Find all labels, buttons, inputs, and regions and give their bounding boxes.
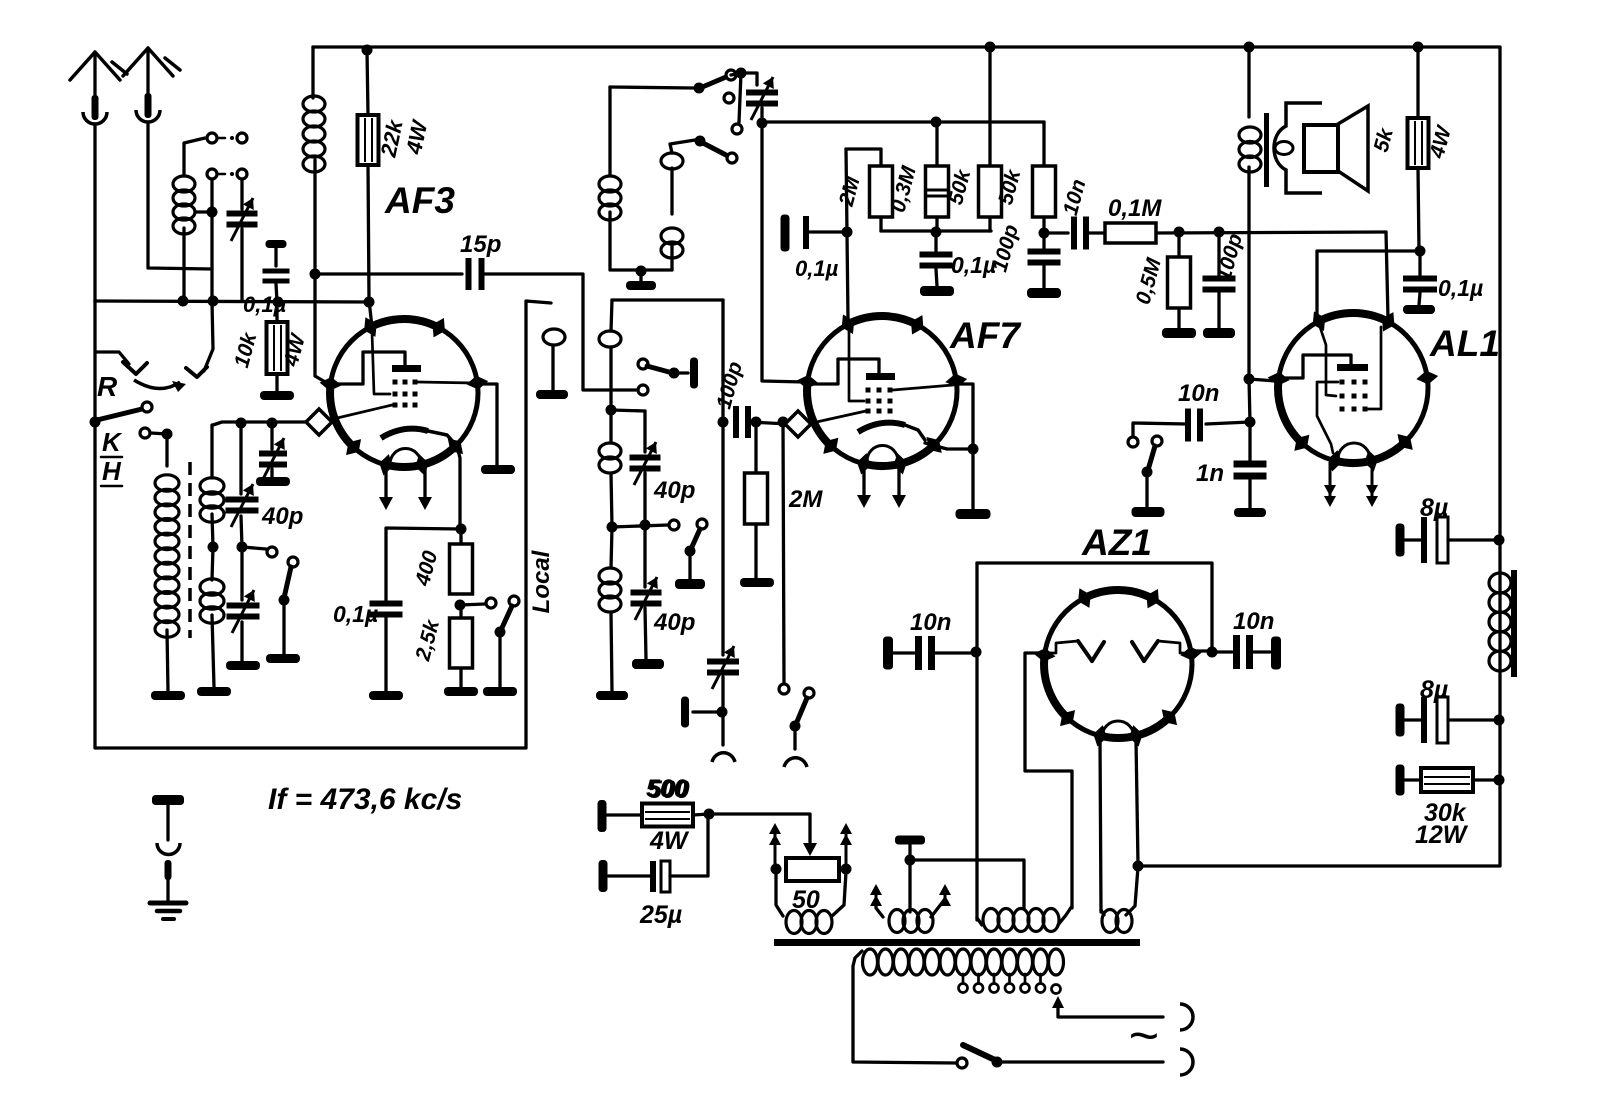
node coil tap [207,207,218,218]
ground gnd-ifsw [675,579,705,589]
jack osc hook [712,753,735,762]
node rail-30k [1494,775,1505,786]
tube V1 cathode [381,429,456,445]
ground gnd-2k5 [444,687,478,696]
node 2M-tap [751,417,762,428]
tube V1 heater [390,448,421,464]
label 4W 500 [649,827,690,855]
label 10n az r [1233,608,1274,635]
node 500-25u [704,809,715,820]
label 10n det [1059,177,1091,218]
wire 100p to diamond [750,422,788,424]
label 0,5M [1132,255,1166,307]
node 400-2k5 [455,600,466,611]
label 2M grid [835,174,865,210]
contact tone1 [1128,437,1138,447]
speaker LS [1274,103,1368,193]
label 0,1u tone [1438,275,1483,301]
wire V4 anode feed [1190,649,1212,652]
inductor PT-5V [1101,867,1138,933]
svg-text:AF7: AF7 [949,315,1022,356]
label 8u 2 [1420,676,1448,704]
label 40p a [261,503,303,530]
wire V4 heater a [1100,740,1101,912]
node avc-03M [931,227,942,238]
svg-text:15p: 15p [460,231,501,258]
ground gnd-V1-screen [481,465,515,474]
resistor R-22k [358,50,379,327]
inductor L-ant [173,138,205,301]
capacitor C-osc-trim [746,77,778,123]
inductor L-IF2-a [599,300,621,410]
wire phono down [783,422,784,683]
label 12W [1415,821,1469,849]
switch wave-sw1 arm [279,557,299,654]
wire V2 cathode gnd [925,384,973,449]
capacitor C-40p-b [227,547,260,661]
capacitor C-8u-1 [1396,517,1500,563]
svg-text:40p: 40p [653,609,695,636]
ground gnd-avc [920,286,954,296]
tube V4 heater [1102,721,1134,737]
switch phono arm [790,688,815,749]
svg-text:0,1µ: 0,1µ [333,601,378,627]
wire V1 cathode down [457,446,460,529]
contact ant-c [207,169,217,179]
node ant-01u [273,297,284,308]
label Local [528,549,555,613]
wire anode to AF3 pin [315,274,327,383]
taps mains [959,974,1046,993]
node PT-5V out [1133,861,1144,872]
tube V2 cathode [858,423,925,440]
wire mains out [997,1060,1163,1063]
terminal bar-pad [681,697,689,728]
tube V1 anode [332,352,421,384]
tube V1 g4 lead [333,405,392,419]
node speaker-anode [1244,374,1255,385]
ground gnd-L1 [151,691,185,700]
terminal bar-15p-sw [690,358,698,389]
node anode-15p [310,269,321,280]
node tone [1415,246,1426,257]
label 100p af [1212,231,1247,283]
tube V2 heater arrows [857,465,906,508]
label 50k 1 [944,166,976,207]
node bus-50k [985,42,996,53]
wire avc bottom [881,229,991,232]
wire grid line [213,422,305,425]
resistor R-400 [450,529,473,594]
label mains tilde [1128,1007,1158,1065]
label AF7 [949,315,1022,356]
label 4W [401,117,433,158]
contact wave-sw1 [267,547,277,557]
switch K arm [97,409,142,420]
ground gnd-100p-det [1027,288,1061,298]
ground gnd-cath-cap [369,691,403,700]
tube V1 grid lead [372,332,390,394]
wire to AL1 anode pin [1249,379,1276,381]
capacitor C-01u-af7 [781,215,846,252]
wire shield box [95,301,551,748]
svg-text:If = 473,6 kc/s: If = 473,6 kc/s [268,783,462,816]
wire PT-CT [908,845,911,860]
node 50-left [771,864,782,875]
grid-cap V2 [785,411,811,437]
svg-text:8µ: 8µ [1420,494,1448,522]
resistor R-500 [598,800,710,832]
arrow 4V left [870,884,882,906]
wire V1 screen gnd [478,384,497,465]
capacitor C-40p-a [226,423,259,547]
wire contact stub [739,73,741,122]
wire CT to HVCT [910,860,1024,908]
svg-text:12W: 12W [1415,821,1469,849]
wire osc to AF7 anode [762,123,804,382]
jack mains hook1 [1180,1004,1193,1030]
jack mains hook2 [1180,1049,1193,1075]
inductor L-IF1-primary [303,47,325,274]
tube V2 grids [866,388,893,414]
svg-text:8µ: 8µ [1420,676,1448,704]
core transformer dashed [188,462,192,638]
wire down to 10n [1249,379,1250,422]
core out-transformer [1264,113,1269,187]
contact osc-c3 [724,93,734,103]
wire coil tap [195,210,212,213]
wire 15p to switch [484,274,636,390]
wire x723 [721,300,724,655]
svg-text:1n: 1n [1196,460,1224,487]
wire pad bar [693,710,722,713]
node az1-right-cap [1207,647,1218,658]
svg-text:0,1µ: 0,1µ [1438,275,1483,301]
tube V3 anode [1285,355,1368,378]
node ant bus b [208,296,219,307]
label AF3 [384,180,455,221]
label AL1 [1429,323,1500,364]
svg-text:H: H [102,456,122,486]
node vol1 [1174,227,1185,238]
switch ifsw arm [685,519,708,579]
antenna A1 [70,52,127,124]
label 50 [792,886,820,914]
ground gnd-V2 [956,509,991,519]
wire anode AL1 [1317,251,1420,318]
label 15p [460,231,501,258]
ground gnd-pad [256,477,290,486]
wire tap1 right [611,410,645,411]
ground gnd-osc [626,271,656,290]
svg-text:AZ1: AZ1 [1081,522,1152,563]
ground gnd-cath-sw [483,687,517,696]
ground gnd-05M [1162,328,1196,338]
tube V3 AL1 envelope [1268,311,1439,471]
wire antenna2 down [148,122,212,269]
node screen-03M [931,117,942,128]
inductor L-osc-b [661,140,695,270]
contact K1 [142,402,152,412]
label 1n [1196,460,1224,487]
inductor L-choke [1489,570,1517,677]
wire tap to contact [242,547,266,549]
ground gnd-link [536,390,568,399]
node ant bus a [178,296,189,307]
node bus-speaker [1244,42,1255,53]
label H [101,456,122,486]
node sec tap a [208,542,219,553]
switch R wiper [96,352,186,392]
inductor L2-sec-top [200,425,224,547]
label 8u 1 [1420,494,1448,522]
label 25u [639,901,682,929]
resistor R-5k [1408,47,1429,251]
wire 15p left [315,272,462,275]
ground gnd-L2 [197,687,231,696]
svg-text:AL1: AL1 [1429,323,1500,364]
node 10n-1n [1245,417,1256,428]
capacitor C-cath-01u [370,528,462,691]
capacitor C-40p-d [631,525,662,659]
wire osc top [610,87,694,88]
switch 15p-gnd arm [638,359,688,379]
node 100p-left [718,417,729,428]
wire HT+ top bus [313,47,1500,866]
label 0,3M [887,163,921,215]
wire to contact [460,604,485,605]
wire K2 to coil [151,433,167,466]
ground gnd-tone-sw [1132,507,1165,517]
tube V3 g2 lead [1368,327,1381,409]
tube V3 grid lead [1319,324,1336,396]
capacitor C-10n-az-l [883,636,976,670]
capacitor C-ant-01u [263,240,290,301]
label 0,1u af7 [795,256,839,281]
resistor R-50k-2 [1033,122,1056,233]
resistor R-50k-1 [979,47,1002,231]
label 30k [1424,799,1467,827]
wire V4 heater b [1136,740,1138,864]
svg-text:R: R [97,371,118,402]
capacitor C-grid-pad [259,423,287,481]
switch osc-sw2 [695,136,727,156]
node bus-22k [362,45,373,56]
node bus-5k [1413,42,1424,53]
earth terminal [150,795,186,919]
label 0,1u ant [243,292,287,317]
wire x977 [975,563,978,920]
capacitor C-1n [1234,422,1267,508]
node osc-af7 [757,118,768,129]
node az1-left-cap [971,647,982,658]
label 4W 5k [1425,122,1456,161]
inductor L-out-prim [1239,47,1261,379]
node IF2 tap2 [607,522,618,533]
label K [101,427,123,457]
label 5k [1370,125,1399,155]
wire AZ1 box [977,563,1212,652]
label 10n az l [910,609,951,636]
contact mains-sw [957,1058,967,1068]
capacitor C-8u-2 [1396,697,1500,743]
node sec tap b [237,542,248,553]
node 40p-c [640,520,651,531]
antenna A2 [123,48,180,122]
svg-text:AF3: AF3 [384,180,455,221]
contact phono1 [779,684,789,694]
tube V3 g3 lead [1317,382,1338,453]
svg-text:25µ: 25µ [639,901,682,929]
node 50-right [841,864,852,875]
wire tap2 to contact [612,525,668,527]
capacitor C-100p-det [1028,233,1061,288]
resistor R-01M [1105,223,1386,243]
tube V4 diode left [1047,641,1104,661]
tube V1 heater arrows [379,467,432,510]
contact ifsw [669,520,679,530]
ground gnd-100p-af [1203,328,1235,338]
arrow 4V right [939,884,951,906]
label 100p osc [712,359,747,411]
tube V1 AF3 envelope [320,317,489,475]
grid-cap V1 [306,409,332,435]
inductor L-IF2-c [599,527,621,691]
arrow 50 right [840,823,852,867]
capacitor C-01u-avc [920,232,953,286]
tube V2 AF7 envelope [797,314,968,474]
inductor L1-primary [155,475,179,691]
node rail-8u1 [1494,535,1505,546]
svg-text:Local: Local [528,549,555,613]
tube V2 grid lead [849,324,864,401]
arrow 50 left [769,823,781,867]
svg-text:2M: 2M [788,486,823,513]
wire screen line [762,120,1044,123]
contact K2 [140,428,150,438]
wire PT-4V-CT [908,860,911,912]
label 100p det [988,222,1023,274]
ground gnd-sw1 [266,654,300,663]
label 400 [411,548,443,589]
node rail-8u2 [1494,715,1505,726]
tube V2 anode [809,359,895,384]
resistor R-10k [267,302,288,391]
node grid-trim [236,418,247,429]
node V1 cathode [456,524,467,535]
node K2 [162,429,173,440]
tube V3 grids [1340,380,1368,412]
wire trim top [731,73,757,85]
svg-text:50: 50 [792,886,820,914]
resistor R-2k5 [450,605,473,687]
node K pivot [90,417,101,428]
capacitor C-10n-tone [1133,409,1250,442]
tube V3 heater arrows [1324,462,1378,507]
label R [97,371,118,402]
ground gnd-IF2 [596,691,628,700]
switch cath-sw arm [495,596,520,687]
resistor R-30k [1396,765,1500,796]
wire feed 50 [709,814,817,856]
label 40p d [653,609,695,636]
inductor L2-sec-bot [200,547,224,687]
node phono-tap [778,417,789,428]
jack phono hook b [784,758,807,767]
tube V4 AZ1 envelope [1034,588,1203,746]
wire IF2 top [612,298,723,301]
inductor PT-mains [853,949,1064,1063]
wire af7 gridline [846,149,848,319]
node af7 grid [842,227,853,238]
label 500 [646,775,688,803]
inductor PT-50 [776,872,846,934]
capacitor C-15p [466,258,485,290]
ground gnd-10k [260,391,294,400]
tap selector [1052,985,1164,1018]
contact cath-sw [486,598,496,608]
label 40p c [653,477,695,504]
svg-text:0,1M: 0,1M [1108,195,1162,222]
ground gnd-2M [740,578,774,587]
ground gnd-tone [1403,305,1435,314]
wire antenna1 down [93,124,96,301]
wire V2 gnd down [971,449,974,509]
wire ground bus [95,301,369,302]
inductor L-IF2-b [599,410,621,527]
label 0,1u avc [951,252,996,278]
contact ant-a [207,133,217,143]
capacitor C-25u [599,814,709,892]
capacitor C-ant-trim [227,179,258,300]
wire V4 cathode out [1025,653,1072,908]
switch R contact [186,302,213,377]
label 10k [230,329,262,370]
svg-text:10n: 10n [1233,608,1274,635]
contact osc-c2 [732,124,742,134]
tube V2 g2 lead [893,385,953,390]
ground gnd-1n [1234,508,1266,517]
switch tone arm [1142,436,1163,507]
core PT [774,939,1140,946]
tube V4 diode right [1132,641,1189,661]
capacitor C-osc-pad [707,646,739,745]
terminal PT-CT-bar [895,836,925,845]
contact osc-sw1 [726,70,736,80]
resistor R-2M-af7 [745,422,768,578]
label If [268,783,462,816]
switch osc-sw1 [694,77,727,94]
resistor R-50 [786,858,839,881]
contact 15p-switch [638,385,648,395]
label 2,5k [411,616,444,664]
label 2M af7 [788,486,823,513]
capacitor C-01u-tone [1403,251,1437,305]
label 10n tone [1178,380,1219,407]
node osc gnd tap [636,266,647,277]
capacitor C-10n-az-r [1212,635,1281,670]
node osc trim [736,68,747,79]
ground bar-40p-d [632,659,664,669]
node PT-CT [905,855,916,866]
wire contact-c down [210,179,213,301]
wire grid AL1 [1386,232,1388,318]
svg-text:0,1µ: 0,1µ [795,256,839,281]
resistor R-03M [926,122,949,232]
label 22k [375,116,408,160]
label 500 res [648,776,690,804]
inductor L-link [543,329,565,390]
